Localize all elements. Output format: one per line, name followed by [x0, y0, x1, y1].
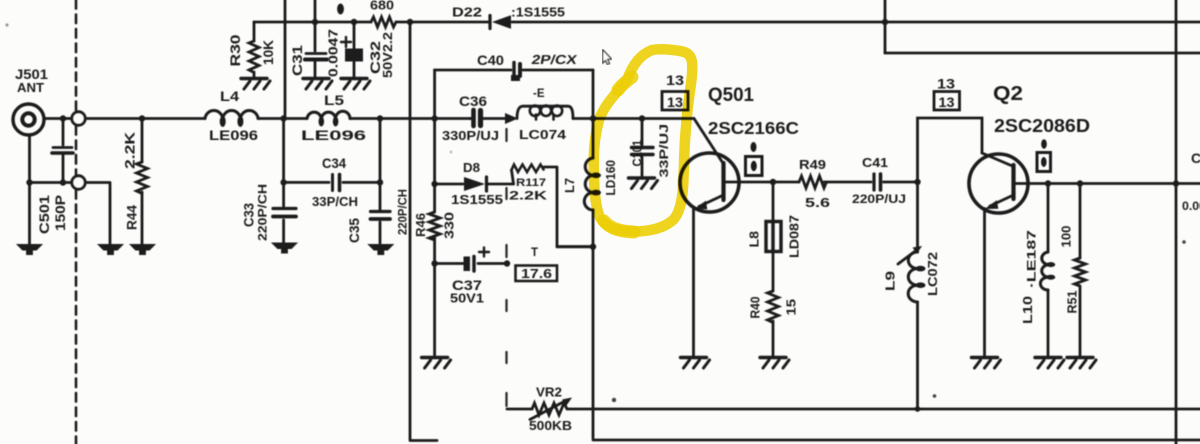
node connector pin lower	[72, 176, 86, 190]
wire C37 branch y=263.5	[435, 262, 507, 265]
diode D8	[435, 177, 514, 191]
svg-text:R117: R117	[516, 177, 546, 189]
connector J501	[13, 104, 44, 135]
capacitor C40	[511, 63, 520, 82]
wire stub above C32	[337, 4, 344, 15]
svg-text:LE096: LE096	[301, 127, 366, 143]
diode D22	[490, 15, 511, 29]
label T and 17.6	[521, 247, 552, 281]
svg-text:LD087: LD087	[788, 215, 802, 258]
wire main line left y=118	[44, 115, 205, 121]
label J501 ANT	[15, 66, 48, 95]
svg-text:17.6: 17.6	[521, 266, 552, 281]
wire lower link y=182.5	[30, 179, 111, 244]
resistor R40	[768, 291, 779, 356]
svg-text:D22: D22	[452, 5, 482, 20]
mouse cursor	[603, 50, 612, 65]
wire x=592 drop to main line	[590, 70, 596, 122]
capacitor C501	[52, 119, 73, 183]
svg-text:D8: D8	[463, 160, 480, 175]
svg-text:0.00: 0.00	[1182, 201, 1200, 213]
svg-text:50V1: 50V1	[450, 291, 484, 306]
ground C32	[341, 79, 370, 90]
svg-text:10K: 10K	[261, 40, 276, 65]
capacitor C101	[632, 119, 654, 177]
svg-text::1S1555: :1S1555	[511, 6, 565, 20]
svg-text:LC074: LC074	[519, 127, 567, 142]
node test point junction	[504, 260, 510, 266]
resistor R30	[249, 41, 259, 77]
label box 0 Q501	[746, 142, 763, 176]
wire C40 branch y=70	[435, 69, 593, 72]
ground L10	[1035, 358, 1064, 369]
resistor R49	[799, 176, 827, 188]
svg-text:C33: C33	[242, 203, 257, 227]
svg-text:50V2.2: 50V2.2	[381, 32, 395, 78]
svg-text:R49: R49	[799, 157, 826, 172]
svg-text:1S1555: 1S1555	[451, 192, 503, 207]
svg-text:330P/UJ: 330P/UJ	[442, 129, 499, 143]
svg-text:500KB: 500KB	[529, 419, 572, 433]
label C32 50V2.2	[368, 32, 395, 78]
wire arrow into transformer	[505, 113, 518, 124]
ground C33	[271, 243, 298, 254]
label box 13 Q2	[934, 92, 960, 111]
label C41 220P/UJ	[852, 155, 906, 206]
ground C31	[303, 79, 332, 90]
label R44 2.2K	[123, 132, 140, 230]
label right edge cut C	[1182, 150, 1200, 213]
svg-text:680: 680	[370, 0, 394, 13]
label C101 33P/UJ	[630, 124, 672, 178]
label C501 150P	[37, 194, 68, 234]
label R46 330	[413, 212, 457, 239]
label Q2 2SC2086D	[993, 83, 1090, 136]
svg-text:220P/CH: 220P/CH	[396, 189, 410, 235]
wire dashed annotation x=507	[505, 129, 507, 406]
wire Q2 emitter to ground	[983, 209, 986, 357]
svg-text:C34: C34	[322, 155, 346, 171]
svg-text:R40: R40	[749, 296, 763, 318]
svg-text:LE096: LE096	[209, 127, 258, 143]
potentiometer VR2	[530, 398, 572, 420]
svg-text:2.2K: 2.2K	[509, 189, 547, 203]
wire vertical x=885 top	[882, 0, 888, 53]
ground J501	[16, 244, 43, 255]
svg-text:R30: R30	[228, 35, 243, 67]
transistor Q501	[680, 119, 739, 213]
wire Q501 collector y=182	[724, 179, 921, 185]
label box 13 Q501	[662, 92, 688, 111]
svg-text:13: 13	[937, 77, 956, 92]
svg-text:150P: 150P	[53, 195, 68, 231]
label LD160	[603, 160, 618, 196]
wire vertical rail x=434.6	[431, 70, 437, 356]
wire transformer to Q501 base	[573, 115, 694, 121]
capacitor C35	[371, 119, 391, 244]
svg-text:ANT: ANT	[17, 80, 44, 95]
label L10 LE187	[1020, 230, 1039, 324]
label L9 LC072	[883, 252, 941, 296]
svg-text:C31: C31	[290, 44, 305, 76]
label box 0 Q2	[1037, 139, 1051, 171]
wire second rail y=53	[885, 52, 1200, 55]
svg-text:0.0047: 0.0047	[327, 29, 341, 77]
wire dashed boundary x=76	[75, 0, 78, 444]
svg-text:L4: L4	[220, 88, 239, 104]
wire L5 to C36	[350, 115, 471, 121]
ground C35	[367, 244, 394, 255]
label L8 LD087	[747, 215, 802, 258]
wire Q2 collector y=183.5	[1014, 180, 1200, 186]
svg-text:13: 13	[667, 95, 684, 110]
label voltage box 17.6	[516, 266, 558, 282]
wire Q501 emitter to ground	[692, 209, 695, 356]
inductor L4	[205, 111, 258, 127]
resistor R51	[1075, 184, 1086, 357]
svg-text:100: 100	[1060, 225, 1074, 247]
capacitor C41	[874, 174, 881, 190]
wire AGC line y=409	[507, 406, 1200, 412]
svg-text:C35: C35	[347, 218, 362, 243]
svg-text:·LE187: ·LE187	[1025, 230, 1039, 288]
wire vertical x=285 upper	[284, 0, 287, 119]
label C36 330P/UJ	[442, 93, 499, 143]
svg-text:2SC2086D: 2SC2086D	[994, 116, 1090, 136]
svg-text:R44: R44	[125, 205, 140, 230]
svg-text:2.2K: 2.2K	[123, 132, 138, 169]
svg-text:L7: L7	[562, 178, 577, 193]
svg-text:LD160: LD160	[603, 160, 618, 196]
label L5 LE096	[301, 92, 366, 143]
label C34 33P/CH	[312, 155, 358, 209]
label VR2 500KB	[529, 386, 572, 434]
svg-text:L9: L9	[883, 271, 898, 291]
wire right vertical rail x=1176	[1173, 0, 1179, 444]
label R51 100	[1060, 225, 1080, 313]
svg-text:T: T	[531, 247, 538, 259]
inductor L9 LC072	[898, 182, 926, 409]
ground R40	[760, 358, 789, 369]
label R30 10K	[228, 35, 276, 67]
label C33 220P/CH	[242, 184, 270, 241]
svg-text:33P/CH: 33P/CH	[312, 195, 358, 209]
svg-text:330: 330	[442, 212, 457, 239]
transformer LC074	[517, 106, 573, 120]
inductor L10 LE187	[1040, 184, 1055, 357]
label 680	[370, 0, 394, 13]
svg-text:13: 13	[666, 73, 685, 88]
resistor R117	[512, 165, 595, 247]
ground R44	[129, 244, 156, 255]
svg-text:220P/UJ: 220P/UJ	[852, 192, 906, 206]
svg-text:L8: L8	[747, 231, 762, 248]
resistor R44	[137, 115, 148, 244]
svg-text:-E: -E	[533, 88, 545, 100]
yellow highlighter ring	[594, 49, 693, 232]
wire rail x=594.5 / inductor L7 LD160	[557, 119, 596, 439]
wire vertical rail x=410	[407, 19, 437, 441]
label 13 Q501	[666, 73, 685, 110]
capacitor C37 electrolytic	[464, 248, 490, 272]
svg-text:5.6: 5.6	[805, 195, 830, 210]
ground Q501 emitter	[681, 358, 710, 369]
svg-text:13: 13	[939, 95, 956, 110]
svg-text:Q501: Q501	[708, 85, 754, 106]
wire J501 ground leg	[26, 135, 32, 244]
label D8 1S1555	[451, 160, 503, 207]
node connector pin upper	[72, 112, 86, 126]
svg-text:C501: C501	[37, 194, 52, 234]
label Q501 2SC2166C	[708, 85, 799, 138]
capacitor C32 electrolytic	[341, 19, 363, 77]
ground Q2 emitter	[972, 358, 1001, 369]
resistor R46	[429, 212, 440, 240]
label R117 2.2K	[509, 177, 547, 203]
label 13 Q2	[937, 77, 956, 111]
svg-text:C36: C36	[459, 93, 487, 109]
svg-text:C3: C3	[1191, 150, 1200, 166]
ground C101	[629, 178, 658, 189]
svg-text:C40: C40	[477, 52, 504, 68]
transistor Q2	[969, 153, 1028, 213]
resistor 680	[371, 17, 396, 27]
svg-text:R51: R51	[1066, 290, 1080, 313]
label C35 220P/CH	[347, 189, 410, 243]
svg-text:L5: L5	[324, 92, 344, 108]
svg-text:Q2: Q2	[993, 83, 1023, 105]
label D22 1S1555	[452, 5, 565, 20]
label C31 0.0047	[290, 29, 341, 77]
svg-text:C101: C101	[630, 140, 645, 167]
svg-text:C41: C41	[862, 155, 888, 170]
svg-text:2P/CX: 2P/CX	[530, 52, 578, 67]
capacitor C31	[305, 0, 327, 77]
svg-text:33P/UJ: 33P/UJ	[657, 124, 671, 178]
label -E LC074	[519, 88, 567, 142]
svg-text:2SC2166C: 2SC2166C	[708, 118, 799, 138]
label R40 15	[749, 296, 799, 318]
inductor L8 LD087	[766, 182, 781, 291]
capacitor C36	[470, 110, 506, 126]
ground R51	[1067, 358, 1096, 369]
ground rail x=434.6	[422, 358, 451, 369]
svg-text:220P/CH: 220P/CH	[256, 184, 270, 241]
capacitor C33	[273, 119, 296, 243]
capacitor C34	[284, 175, 384, 191]
ground lower link	[97, 244, 124, 255]
wire Q2 base path	[918, 118, 983, 182]
inductor L5	[307, 111, 350, 126]
inductor L7 coil	[584, 158, 601, 210]
label R49 5.6	[799, 157, 830, 210]
svg-text:LC072: LC072	[925, 252, 940, 296]
label C37 50V1	[450, 278, 484, 306]
label L7	[562, 178, 577, 193]
svg-text:R46: R46	[413, 213, 428, 237]
label C40 2P/CX	[477, 52, 578, 68]
ground R30	[241, 79, 270, 90]
wire L4 to L5	[258, 115, 307, 121]
label L4 LE096	[209, 88, 258, 143]
wire bottom bus y=440	[593, 439, 1200, 442]
svg-text:VR2: VR2	[536, 386, 562, 400]
wire top supply rail y=22	[254, 22, 1200, 41]
svg-text:L10: L10	[1020, 296, 1035, 324]
svg-text:15: 15	[785, 299, 799, 316]
